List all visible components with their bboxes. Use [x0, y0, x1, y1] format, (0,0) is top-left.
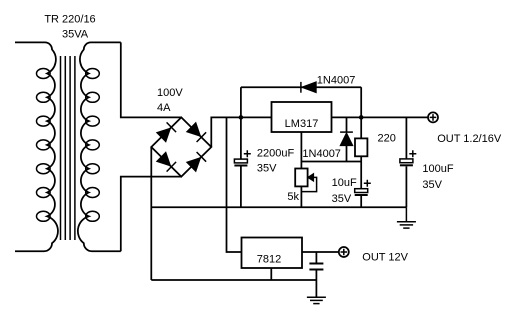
wire bottom ground rail	[151, 279, 316, 281]
resistor R1 220 top pin	[360, 117, 362, 138]
wire bridge - output down to ground rail and bottom rail	[150, 147, 152, 280]
op-amp/regulator U1 LM317 box	[272, 102, 332, 132]
diode D2 1N4007 top pin from output rail	[346, 117, 348, 132]
svg-text:100V: 100V	[157, 87, 183, 99]
capacitor C3 polarity plus sign	[409, 150, 416, 157]
capacitor C1 2200uF bottom pin	[240, 167, 242, 208]
transformer TR secondary winding loop 1	[86, 69, 100, 79]
junction dot at V+ / R1 / D1 node	[359, 115, 364, 120]
svg-text:LM317: LM317	[285, 118, 319, 130]
svg-text:7812: 7812	[257, 254, 281, 266]
capacitor C4 bottom pin through bottom rail to ground	[315, 270, 317, 298]
capacitor C2 polarity plus sign	[364, 180, 371, 187]
capacitor C3 100uF plus plate (hollow)	[400, 159, 413, 163]
diode D2 bottom pin to ADJ rail	[346, 146, 348, 162]
ground (below C4)	[307, 297, 326, 303]
potentiometer P1 wiper arrow	[301, 177, 316, 191]
potentiometer P1 5k body	[295, 169, 307, 187]
diode D2 1N4007 cathode bar	[340, 131, 353, 133]
wire bypass loop right vertical	[360, 87, 362, 117]
svg-text:1N4007: 1N4007	[317, 74, 356, 86]
output terminal OUT 12V (circled plus)	[339, 247, 349, 257]
transformer TR secondary winding loop 6	[86, 188, 100, 198]
transformer TR primary winding loop 6	[37, 188, 51, 198]
diode D1 1N4007 cathode bar	[300, 82, 302, 93]
svg-text:100uF: 100uF	[422, 163, 453, 175]
capacitor C1 2200uF minus plate	[234, 165, 247, 167]
bridge diode D-a (left to top)	[157, 128, 171, 142]
output terminal OUT 1.2/16V (circled plus)	[428, 112, 438, 122]
ground (main, right end of ground rail)	[397, 207, 416, 228]
resistor R1 220 body	[355, 138, 367, 156]
diode D1 1N4007 triangle (pointing left)	[302, 82, 317, 93]
svg-text:35V: 35V	[332, 193, 352, 205]
bridge diode D-b (top to right)	[187, 123, 201, 137]
wire from V+ rail down to 7812 input (crosses ground rail)	[227, 117, 242, 252]
potentiometer P1 bottom pin to ground rail	[300, 186, 302, 207]
svg-text:220: 220	[378, 132, 396, 144]
wire secondary top lead to bridge top vertex	[121, 42, 182, 117]
wire 7812 output to OUT 12V terminal	[302, 251, 339, 253]
regulator U2 7812 box	[242, 238, 303, 269]
transformer TR secondary winding loop 7	[86, 211, 100, 221]
capacitor C1 2200uF top pin	[240, 117, 242, 159]
transformer TR secondary winding loop 3	[86, 116, 100, 126]
transformer TR primary winding loop 4	[37, 140, 51, 150]
bridge rectifier diamond outline	[151, 117, 211, 176]
svg-text:35V: 35V	[422, 179, 442, 191]
junction dot at V+ / C1 / D1 bypass node	[239, 115, 244, 120]
capacitor C2 10uF plus plate (hollow)	[355, 189, 368, 193]
bridge diode D-d (bottom to right)	[187, 158, 201, 172]
regulator U2 ground pin to bottom rail	[270, 268, 272, 280]
capacitor C1 polarity plus sign	[244, 150, 251, 157]
capacitor C3 100uF bottom pin to ground rail	[405, 166, 407, 207]
svg-text:TR 220/16: TR 220/16	[44, 13, 95, 25]
transformer TR primary winding loop 7	[37, 211, 51, 221]
wire ground rail (middle horizontal)	[151, 206, 406, 208]
capacitor C2 10uF top pin from ADJ rail	[360, 162, 362, 189]
capacitor C2 10uF minus plate	[355, 194, 368, 196]
wire bypass loop left vertical (node at C1)	[240, 87, 242, 117]
transformer TR secondary winding (right) with top/bottom leads	[78, 42, 121, 251]
wire secondary bottom lead to bridge bottom vertex	[121, 177, 182, 252]
capacitor C3 100uF minus plate	[400, 164, 413, 166]
svg-text:2200uF: 2200uF	[257, 148, 295, 160]
diode D2 1N4007 triangle (pointing up)	[340, 133, 353, 146]
capacitor C2 10uF bottom pin	[360, 196, 362, 207]
transformer TR primary winding loop 5	[37, 164, 51, 174]
transformer TR primary winding loop 3	[37, 116, 51, 126]
bridge diode D-c (left to bottom)	[157, 152, 171, 166]
capacitor C4 top pin from 7812 output	[315, 252, 317, 264]
svg-text:35V: 35V	[257, 162, 277, 174]
capacitor C1 2200uF plus plate (hollow)	[234, 159, 247, 163]
regulator U1 ADJ pin wire down to potentiometer	[300, 132, 302, 169]
transformer TR secondary winding loop 4	[86, 140, 100, 150]
svg-text:10uF: 10uF	[332, 177, 357, 189]
transformer TR core (4 lamination lines)	[61, 56, 75, 240]
wire bypass loop top horizontal	[241, 86, 361, 88]
wire ADJ node rail	[301, 161, 361, 163]
svg-text:35VA: 35VA	[62, 28, 89, 40]
transformer TR primary winding (left) with top/bottom leads	[15, 42, 58, 251]
capacitor C4 plates	[309, 263, 323, 265]
svg-text:4A: 4A	[157, 102, 171, 114]
svg-text:OUT 12V: OUT 12V	[362, 252, 408, 264]
transformer TR secondary winding loop 2	[86, 92, 100, 102]
svg-text:5k: 5k	[287, 191, 299, 203]
transformer TR primary winding loop 1	[37, 69, 51, 79]
capacitor C3 100uF top pin from output rail	[405, 117, 407, 158]
resistor R1 220 bottom pin	[360, 156, 362, 161]
transformer TR primary winding loop 2	[37, 92, 51, 102]
svg-text:1N4007: 1N4007	[302, 148, 341, 160]
wire bridge + output up and right (V+ rail to LM317 input)	[211, 117, 271, 147]
wire V+ rail from LM317 output to OUT terminal	[332, 116, 429, 118]
svg-text:OUT 1.2/16V: OUT 1.2/16V	[437, 133, 502, 145]
transformer TR secondary winding loop 5	[86, 164, 100, 174]
